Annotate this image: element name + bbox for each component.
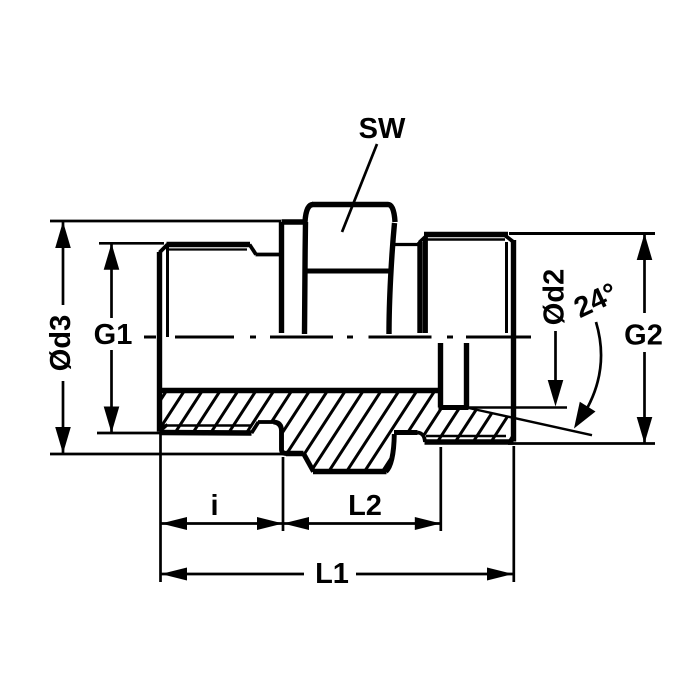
dim i and L2 line [161,522,441,525]
svg-text:i: i [210,490,218,522]
dim i arrow left [161,517,187,530]
hex chamfer waist line [306,269,390,274]
dim Od3 line upper [62,222,65,306]
dim G1 extension line top [99,242,164,245]
dim G2 arrow bottom [637,417,653,444]
centerline (dash-dot axis) [144,336,531,339]
right neck line [391,243,419,246]
hex bottom right arc [386,434,394,472]
top-right chamfer [505,235,514,242]
right thread left face [417,242,422,333]
dim Od3 extension line top [50,220,281,223]
dim G2 extension line bottom [508,442,655,445]
svg-text:Ød2: Ød2 [539,269,571,325]
dim G2 line lower [643,352,646,444]
dim i arrow right [257,517,283,530]
right thread left chamfer edge [423,237,428,334]
bore step vertical right [464,343,469,408]
dim G1 arrow bottom [104,407,120,434]
dim G1 extension line bottom [97,432,164,435]
extension line collar [282,457,285,531]
dim L1 arrow right [487,568,513,581]
left thread major line bottom (thick, hatch boundary) [160,430,252,436]
right thread left chamfer [419,236,427,243]
bottom-left chamfer (section) [160,425,168,432]
hex left silhouette [305,222,306,334]
right end face [511,240,516,442]
dim Od3 arrow top [55,222,71,249]
svg-text:Ød3: Ød3 [45,315,77,371]
thread runout chamfer top [250,245,257,255]
hex top-right corner arc [388,205,395,223]
left thread minor line top (thin) [168,248,247,250]
top-left chamfer [160,245,168,253]
dim G1 arrow top [104,243,120,269]
hex top-left corner arc [305,205,313,223]
collar bottom line [286,451,304,456]
dim G2 line upper [643,234,646,314]
dim L1 line left [161,573,304,576]
ledge line right of hex [394,430,418,435]
right chamfer edge vertical [505,242,508,333]
d2 reference line thin [466,406,567,408]
svg-text:L2: L2 [348,490,382,522]
right thread minor line top (thin) [428,238,506,240]
extension line left end [159,434,162,582]
hex bottom line (section) [313,469,387,474]
svg-text:SW: SW [359,113,406,145]
neck bottom line [258,420,274,424]
dim Od2 arrow [548,380,564,407]
dim Od3 line lower [62,381,65,454]
svg-text:G2: G2 [624,320,663,352]
dim G2 extension line top [509,232,655,235]
24deg leader arc [578,322,601,423]
svg-text:G1: G1 [94,319,133,351]
collar left edge [279,222,284,333]
extension line right end [512,446,515,582]
left end face [157,252,162,432]
d2 bore bottom line [439,405,469,410]
dim G1 line upper [110,243,113,318]
neck top line [256,253,282,257]
bore line (section) [161,388,439,393]
thread runout chamfer bottom [252,422,259,433]
dim L1 arrow left [161,568,187,581]
right thread major line top [424,232,508,237]
24 deg cone line [467,408,593,436]
dim G1 line lower [110,350,113,433]
SW leader line [342,144,377,232]
svg-text:L1: L1 [315,558,349,590]
dim G2 arrow top [637,234,653,261]
right thread major line bottom [425,439,514,444]
left thread minor line bottom (thin) [162,424,252,427]
extension line cone shoulder [439,447,442,531]
left thread major line top [167,242,251,247]
dim Od3 arrow bottom [55,427,71,454]
left chamfer edge vertical [166,246,169,337]
dim L1 line right [356,573,513,576]
collar top line [282,219,307,224]
fillet neck to collar [274,422,288,454]
hex right silhouette [389,223,395,334]
dim Od2 line [554,331,557,390]
24deg arrow [574,402,596,429]
dim L2 arrow right [415,517,441,530]
hex top line [312,202,388,207]
step down s-curve [418,433,426,443]
collar to hex chamfer bottom [304,454,314,472]
dim L2 arrow left [283,517,309,530]
dim Od3 extension line bottom [50,453,286,456]
bore step vertical left [438,343,443,408]
section hatch area [160,391,514,472]
right thread minor line bottom (thin) [426,435,506,438]
